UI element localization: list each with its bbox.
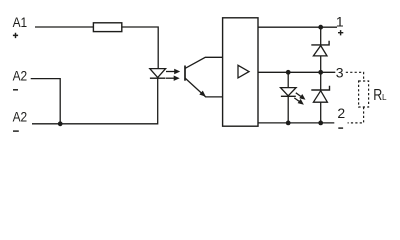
svg-text:L: L bbox=[382, 93, 387, 102]
svg-text:A2: A2 bbox=[13, 109, 28, 125]
svg-text:3: 3 bbox=[336, 65, 344, 81]
svg-text:A1: A1 bbox=[13, 14, 28, 30]
svg-text:R: R bbox=[373, 87, 382, 104]
svg-text:A2: A2 bbox=[13, 67, 28, 83]
svg-text:2: 2 bbox=[337, 105, 345, 121]
svg-text:1: 1 bbox=[336, 14, 344, 30]
